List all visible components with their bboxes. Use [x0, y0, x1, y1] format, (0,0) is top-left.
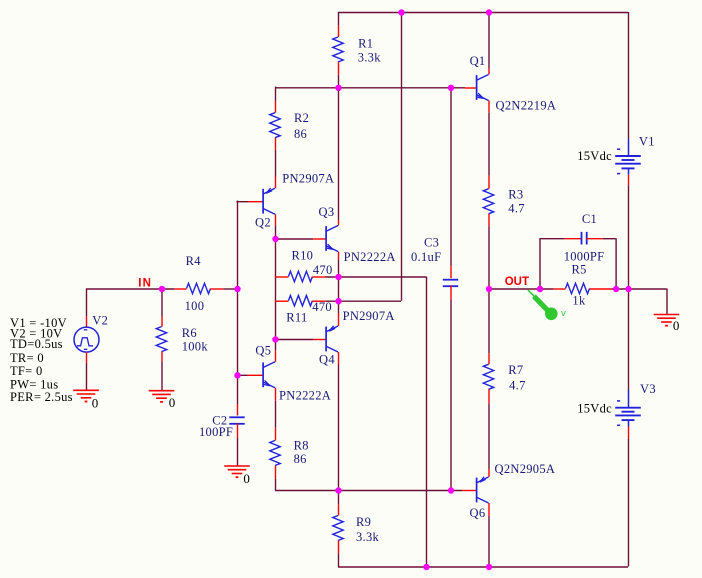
node bottom rail Q6	[486, 564, 492, 570]
svg-text:3.3k: 3.3k	[356, 530, 380, 544]
ground R6	[149, 390, 175, 392]
wire mid rail y490	[275, 490, 462, 492]
wire R1 bottom to node	[338, 75, 340, 88]
transistor Q2	[249, 201, 263, 203]
svg-text:100PF: 100PF	[199, 425, 233, 439]
svg-text:Q3: Q3	[319, 205, 335, 219]
svg-text:R2: R2	[294, 111, 309, 125]
svg-text:0: 0	[92, 395, 99, 410]
wire R8 bottom to mid rail corner	[275, 479, 277, 490]
node y87 C3	[448, 85, 454, 91]
wire V2 column top	[86, 289, 88, 317]
wire Q5 emitter to R8	[275, 401, 277, 428]
svg-text:PN2907A: PN2907A	[282, 171, 334, 185]
svg-text:470: 470	[312, 300, 332, 314]
ground V2	[73, 389, 99, 391]
wire top rail	[338, 12, 628, 14]
wire Q4 collector down to mid rail	[338, 365, 340, 491]
transistor Q6	[462, 490, 476, 492]
source V2 pulse	[86, 316, 88, 327]
svg-text:100: 100	[185, 299, 205, 313]
wire C1 box top right	[603, 238, 616, 240]
wire col D node to R10/R11 taps and Q4 base node	[275, 239, 277, 351]
wire Q1 collector from top rail	[488, 12, 490, 69]
node R10 right	[335, 274, 341, 280]
svg-text:3.3k: 3.3k	[358, 51, 382, 65]
svg-text:C3: C3	[424, 236, 439, 250]
wire C1 box right vertical	[615, 238, 617, 288]
svg-text:R7: R7	[508, 363, 523, 377]
svg-text:1000PF: 1000PF	[564, 249, 605, 263]
node mid rail C3	[448, 487, 454, 493]
svg-text:4.7: 4.7	[508, 201, 525, 215]
svg-text:0: 0	[673, 318, 680, 333]
wire OUT row to R5 box	[489, 288, 554, 290]
wire V3 bottom to bottom rail	[628, 439, 630, 567]
svg-text:PN2907A: PN2907A	[343, 309, 395, 323]
resistor R3	[488, 176, 490, 189]
wire Q2 base run	[236, 201, 248, 203]
svg-text:V2: V2	[92, 313, 108, 327]
ground OUT right	[654, 314, 680, 316]
wire V1 to V3 column	[628, 185, 630, 390]
svg-text:R5: R5	[572, 262, 587, 276]
svg-text:15Vdc: 15Vdc	[577, 149, 612, 163]
svg-text:Q5: Q5	[255, 343, 271, 357]
svg-text:PN2222A: PN2222A	[279, 389, 331, 403]
wire C3 column upper	[450, 87, 452, 266]
svg-text:15Vdc: 15Vdc	[577, 401, 612, 415]
node R11 right	[335, 298, 341, 304]
resistor R10	[275, 276, 288, 278]
transistor Q5	[248, 374, 263, 376]
node y87 R1	[335, 85, 341, 91]
wire R6 column top	[161, 289, 163, 317]
wire R10/R11 node link	[338, 277, 340, 301]
wire C3 column lower	[450, 300, 452, 491]
svg-text:86: 86	[294, 127, 307, 141]
node Q3 base	[272, 236, 278, 242]
wire R4 right to column C	[223, 288, 237, 290]
svg-text:R4: R4	[186, 254, 202, 268]
svg-text:R1: R1	[358, 36, 373, 50]
ground C2	[224, 465, 250, 467]
capacitor C1	[565, 238, 581, 240]
capacitor C3	[450, 266, 452, 278]
node bottom rail x426	[423, 564, 429, 570]
wire x426 column down to bottom rail	[426, 277, 428, 567]
voltage probe marker	[528, 290, 535, 297]
svg-text:R9: R9	[356, 515, 371, 529]
wire R11 node to Q4 emitter	[338, 301, 340, 313]
svg-text:Q6: Q6	[470, 506, 486, 520]
svg-text:C1: C1	[582, 212, 597, 226]
node R5 box left	[537, 286, 543, 292]
svg-text:1k: 1k	[572, 294, 586, 308]
wire R9 column top	[338, 490, 340, 504]
svg-text:86: 86	[294, 452, 307, 466]
source V3 battery	[628, 390, 630, 407]
svg-text:PN2222A: PN2222A	[344, 250, 396, 264]
svg-text:Q1: Q1	[470, 54, 486, 68]
svg-text:R6: R6	[182, 326, 197, 340]
resistor R11	[275, 300, 288, 302]
wire Q6 collector down to bottom rail	[488, 516, 490, 567]
node R5 box right	[613, 286, 619, 292]
wire R1 top stub	[338, 12, 340, 25]
transistor Q4	[313, 339, 325, 341]
svg-text:R10: R10	[292, 249, 314, 263]
svg-text:PER= 2.5us: PER= 2.5us	[10, 390, 73, 404]
svg-text:TR= 0: TR= 0	[10, 351, 44, 365]
resistor R1	[338, 25, 340, 37]
wire C1 box left vertical	[539, 238, 541, 288]
svg-text:R11: R11	[286, 311, 307, 325]
capacitor C2	[237, 404, 239, 416]
wire V2 bottom to ground	[86, 363, 88, 390]
svg-text:0.1uF: 0.1uF	[411, 250, 441, 264]
wire R2 bottom to Q2 emitter	[275, 150, 277, 177]
svg-text:V1: V1	[639, 135, 655, 149]
wire OUT node down to R7	[488, 289, 490, 354]
svg-text:4.7: 4.7	[509, 378, 526, 392]
wire R11 row right	[325, 300, 401, 302]
svg-text:470: 470	[313, 263, 333, 277]
wire R3 bottom to OUT node	[488, 226, 490, 288]
node IN	[159, 286, 165, 292]
resistor R2	[275, 101, 277, 113]
node top rail x401	[398, 9, 404, 15]
svg-text:R8: R8	[294, 438, 309, 452]
svg-text:R3: R3	[508, 187, 523, 201]
node V1 column OUT row	[625, 286, 631, 292]
wire column C from Q2 base down to C2	[237, 201, 239, 405]
resistor R5	[553, 288, 565, 290]
wire Q2 collector to Q3 base node	[275, 226, 277, 239]
node OUT	[486, 286, 492, 292]
node Q5 base	[234, 372, 240, 378]
svg-text:0: 0	[169, 395, 176, 410]
svg-text:100k: 100k	[182, 339, 209, 353]
source V1 battery	[628, 139, 630, 156]
wire x401 column up to top rail	[401, 12, 403, 301]
wire R2 top stub	[275, 87, 277, 101]
node Q4 base	[272, 336, 278, 342]
resistor R4	[174, 288, 186, 290]
wire R6 bottom to ground	[161, 361, 163, 390]
svg-text:TD=0.5us: TD=0.5us	[10, 337, 63, 351]
wire C1 box top left	[540, 238, 565, 240]
svg-text:IN: IN	[138, 278, 152, 290]
svg-text:V3: V3	[640, 382, 656, 396]
wire bottom rail	[338, 566, 628, 568]
wire Q5 base run	[236, 374, 247, 376]
wire R9 bottom to bottom rail	[338, 553, 340, 566]
svg-text:Q2: Q2	[255, 215, 271, 229]
transistor Q3	[313, 238, 325, 240]
node mid rail R9	[335, 487, 341, 493]
svg-text:Q2N2905A: Q2N2905A	[495, 462, 556, 476]
resistor R9	[338, 504, 340, 515]
wire Q3 base run	[275, 238, 313, 240]
svg-text:TF= 0: TF= 0	[10, 364, 43, 378]
resistor R7	[488, 353, 490, 364]
svg-text:Q4: Q4	[319, 352, 335, 366]
svg-text:0: 0	[243, 471, 250, 486]
wire Q4 base run	[275, 339, 313, 341]
wire V1 column upper	[628, 12, 630, 139]
wire Q3 emitter down to R10 node	[338, 260, 340, 277]
resistor R6	[161, 317, 163, 327]
svg-text:Q2N2219A: Q2N2219A	[496, 99, 557, 113]
wire Q3 collector up to node y87	[338, 87, 340, 220]
wire R5 right to ground stub	[611, 288, 666, 290]
transistor Q1	[465, 87, 476, 89]
wire IN row left	[86, 288, 174, 290]
svg-text:OUT: OUT	[505, 276, 529, 288]
wire base row y87	[275, 87, 465, 89]
wire R7 bottom to Q6 emitter	[488, 403, 490, 469]
svg-text:v: v	[561, 308, 566, 319]
wire R10 row right	[325, 276, 426, 278]
wire right ground stub	[666, 289, 668, 315]
wire Q1 emitter down to R3	[488, 113, 490, 176]
node top rail Q1	[486, 9, 492, 15]
wire C2 bottom to ground	[237, 439, 239, 466]
node R4 col C	[234, 286, 240, 292]
resistor R8	[275, 428, 277, 441]
